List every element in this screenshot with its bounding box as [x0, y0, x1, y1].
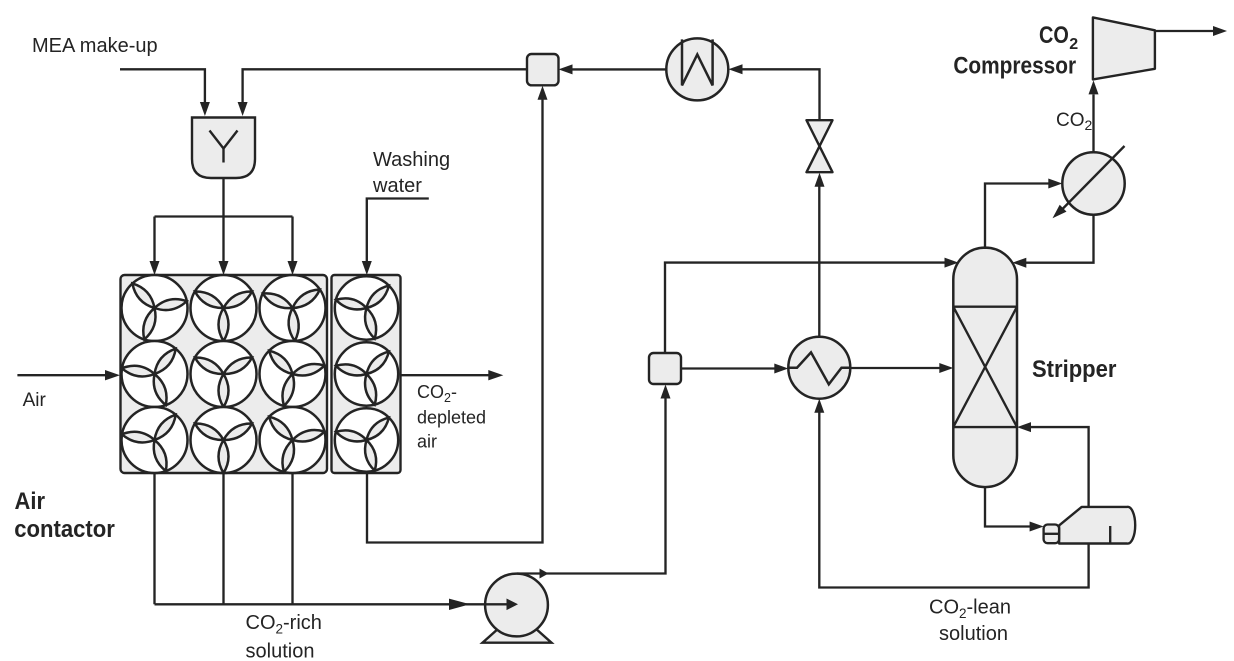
valve V1	[807, 120, 833, 172]
svg-text:Washing: Washing	[373, 149, 450, 171]
fan r1c2	[191, 275, 257, 341]
svg-text:air: air	[417, 432, 437, 452]
wire pump suction into casing	[486, 599, 519, 611]
fan wash r1	[332, 276, 403, 346]
wire lean solution return	[814, 399, 1088, 588]
svg-text:solution: solution	[939, 623, 1008, 645]
svg-text:CO: CO	[1039, 22, 1069, 49]
wire compressor discharge	[1155, 26, 1227, 36]
wire recycle to mixer	[238, 69, 527, 116]
fan r3c2	[191, 407, 257, 473]
svg-text:water: water	[372, 175, 422, 197]
svg-text:2: 2	[1069, 36, 1078, 53]
svg-text:CO2-rich: CO2-rich	[246, 612, 322, 637]
wire stripper overhead vapor	[985, 179, 1062, 250]
reboiler E4	[1044, 507, 1136, 544]
svg-text:Air: Air	[23, 390, 47, 411]
mixer vessel	[192, 118, 255, 179]
svg-text:Stripper: Stripper	[1032, 356, 1116, 383]
wire washing water feed	[362, 199, 429, 276]
heat exchanger E1	[788, 337, 850, 399]
svg-text:CO2-: CO2-	[417, 382, 457, 405]
wire S2 to E1	[681, 364, 788, 374]
fan r2c1	[118, 341, 195, 416]
condenser E3	[1053, 146, 1125, 218]
fan r3c1	[118, 407, 195, 482]
wire reboiler vapor return	[1017, 422, 1089, 507]
wire HX to valve	[815, 173, 825, 337]
fan wash r3	[332, 408, 403, 478]
wire condenser reflux to stripper	[1012, 215, 1093, 268]
fan r1c1	[115, 275, 191, 349]
wire air inlet	[17, 370, 120, 380]
wire valve to cooler	[729, 64, 820, 120]
washing section box	[332, 275, 401, 473]
svg-text:Compressor: Compressor	[953, 52, 1076, 79]
junction S1	[527, 54, 559, 85]
junction S2	[649, 353, 681, 384]
wire washing water recycle	[367, 86, 548, 543]
fan r1c3	[260, 275, 326, 343]
wire rich solution collector	[155, 473, 487, 610]
wire MEA make-up feed	[120, 69, 210, 116]
svg-text:solution: solution	[246, 641, 315, 661]
wire S2 to stripper top	[665, 258, 959, 353]
svg-text:depleted: depleted	[417, 408, 486, 428]
fan r2c2	[191, 341, 257, 407]
wire mixer distributor	[150, 178, 298, 275]
wire stripper bottoms to reboiler	[985, 487, 1044, 532]
wire E1 to stripper feed	[850, 363, 953, 373]
pump P1	[483, 574, 552, 643]
wire cooler to S1	[559, 64, 667, 74]
cooler E2	[666, 38, 728, 100]
fan wash r2	[332, 342, 403, 412]
wire pump outlet to S2	[517, 385, 671, 579]
compressor K1	[1093, 17, 1155, 79]
wire CO2-depleted air outlet	[401, 370, 504, 380]
svg-text:contactor: contactor	[14, 516, 115, 543]
air contactor box	[121, 275, 328, 473]
svg-text:MEA make-up: MEA make-up	[32, 35, 158, 57]
fan r2c3	[254, 341, 328, 414]
svg-text:CO2-lean: CO2-lean	[929, 597, 1011, 622]
svg-text:Air: Air	[15, 488, 46, 515]
wire condenser to compressor	[1089, 80, 1099, 152]
stripper column	[953, 248, 1017, 488]
fan r3c3	[254, 407, 328, 480]
